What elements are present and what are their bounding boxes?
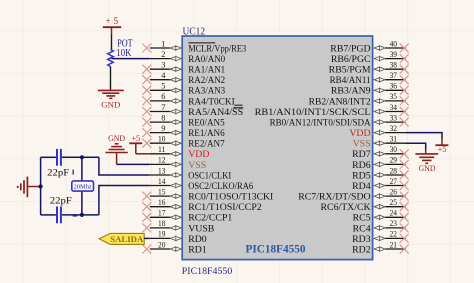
pin 8 stub (RE0/AN5) <box>142 113 181 126</box>
svg-text:RD1: RD1 <box>188 244 207 255</box>
svg-text:RB6/PGC: RB6/PGC <box>331 54 371 65</box>
power +5 (pin 32 VDD) <box>435 138 448 154</box>
svg-text:16: 16 <box>158 198 165 207</box>
pin 39 stub (RB6/PGC) <box>374 50 409 63</box>
svg-text:VSS: VSS <box>353 139 371 150</box>
svg-text:RB7/PGD: RB7/PGD <box>330 43 370 54</box>
svg-text:22: 22 <box>390 230 397 239</box>
svg-text:26: 26 <box>390 187 397 196</box>
pin 18 name label VUSB <box>188 223 215 234</box>
pin 29 name label RD6 <box>352 160 371 171</box>
svg-text:36: 36 <box>390 82 397 91</box>
wire GND to VSS pin 12 <box>117 163 150 165</box>
svg-text:RB4/AN11: RB4/AN11 <box>330 75 371 86</box>
svg-text:20: 20 <box>158 240 165 249</box>
pin 38 stub (RB5/PGM) <box>374 61 409 74</box>
svg-text:RB1/AN10/INT1/SCK/SCL: RB1/AN10/INT1/SCK/SCL <box>255 107 371 118</box>
pin 16 stub (RC1/T1OSI/CCP2) <box>142 198 181 211</box>
svg-text:21: 21 <box>390 240 397 249</box>
wire OSC1 to pin 13 <box>99 157 150 175</box>
pin 30 stub (RD7) <box>374 145 409 158</box>
svg-text:22pF: 22pF <box>50 197 72 207</box>
svg-text:25: 25 <box>390 198 397 207</box>
pin 33 stub (RB0/AN12/INT0/SDI/SDA) <box>374 113 409 126</box>
svg-text:7: 7 <box>161 103 165 112</box>
svg-text:RD6: RD6 <box>352 160 371 171</box>
pin 4 stub (RA2/AN2) <box>142 71 181 84</box>
pin 24 name label RC5 <box>353 213 371 224</box>
pin 25 name label RC6/TX/CK <box>321 202 371 213</box>
pin 11 stub (VDD) <box>150 145 182 157</box>
pin 6 name label RA4/T0CKI <box>188 96 242 107</box>
pin 22 stub (RD3) <box>374 230 409 243</box>
label 10K <box>116 48 132 59</box>
pin 38 name label RB5/PGM <box>329 65 371 76</box>
pin 15 stub (RC0/T1OSO/T13CKI) <box>142 187 181 200</box>
svg-text:RA1/AN1: RA1/AN1 <box>188 65 225 76</box>
pin 1 stub (MCLR/Vpp/RE3) <box>142 39 181 52</box>
wire OSC2 to pin 14 <box>99 186 150 215</box>
svg-text:3: 3 <box>161 61 165 70</box>
pin 28 name label RD5 <box>352 170 371 181</box>
pin 28 stub (RD5) <box>374 166 409 179</box>
svg-text:31: 31 <box>390 135 397 144</box>
svg-text:RA5/AN4/SS: RA5/AN4/SS <box>188 107 243 118</box>
pin 10 name label RE2/AN7 <box>188 139 225 150</box>
svg-text:13: 13 <box>158 166 165 175</box>
svg-text:30: 30 <box>390 145 397 154</box>
ground (pin 31 VSS) <box>415 150 438 173</box>
pin 23 stub (RC4) <box>374 219 409 232</box>
pin 39 name label RB6/PGC <box>331 54 371 65</box>
svg-text:1: 1 <box>161 39 165 48</box>
pin 36 name label RB3/AN9 <box>331 86 371 97</box>
pin 29 stub (RD6) <box>374 156 409 169</box>
svg-text:6: 6 <box>161 92 165 101</box>
svg-text:39: 39 <box>390 50 397 59</box>
pin 13 name label OSC1/CLKI <box>188 170 231 181</box>
pin 34 stub (RB1/AN10/INT1/SCK/SCL) <box>374 103 409 116</box>
svg-text:RC2/CCP1: RC2/CCP1 <box>188 213 232 224</box>
wire SALIDA to RD0 pin 19 <box>144 237 150 239</box>
pin 13 stub (OSC1/CLKI) <box>150 166 182 178</box>
pin 16 name label RC1/T1OSI/CCP2 <box>188 202 262 213</box>
svg-text:RD4: RD4 <box>352 181 371 192</box>
pin 40 name label RB7/PGD <box>330 43 370 54</box>
pin 3 stub (RA1/AN1) <box>142 61 181 74</box>
svg-text:VDD: VDD <box>188 149 209 160</box>
pin 34 name label RB1/AN10/INT1/SCK/SCL <box>255 107 371 118</box>
svg-text:VDD: VDD <box>349 128 370 139</box>
pin 23 name label RC4 <box>353 223 371 234</box>
pin 31 stub (VSS) <box>374 135 406 147</box>
svg-text:32: 32 <box>390 124 397 133</box>
pin 9 stub (RE1/AN6) <box>142 124 181 137</box>
svg-text:RB3/AN9: RB3/AN9 <box>331 86 371 97</box>
svg-text:23: 23 <box>390 219 397 228</box>
pin 26 name label RC7/RX/DT/SDO <box>298 192 370 203</box>
svg-text:RD3: RD3 <box>352 234 371 245</box>
pin 31 name label VSS <box>353 139 371 150</box>
junction node (bottom cap / crystal) <box>80 213 84 217</box>
svg-text:RA4/T0CKI: RA4/T0CKI <box>188 96 235 107</box>
junction node (top cap / crystal) <box>80 155 84 159</box>
label C2 ref mark <box>72 170 74 175</box>
svg-text:RE2/AN7: RE2/AN7 <box>188 139 225 150</box>
pin 27 stub (RD4) <box>374 177 409 190</box>
svg-text:18: 18 <box>158 219 165 228</box>
pin 25 stub (RC6/TX/CK) <box>374 198 409 211</box>
svg-text:11: 11 <box>158 145 165 154</box>
svg-text:OSC1/CLKI: OSC1/CLKI <box>188 170 231 181</box>
ground (crystal, rotated left) <box>18 177 28 198</box>
pin 35 name label RB2/AN8/INT2 <box>309 96 371 107</box>
wire pot wiper to RA0 (pin 2) <box>112 58 150 60</box>
capacitor C2 22pF (top) <box>41 149 99 166</box>
svg-text:22pF: 22pF <box>47 168 69 178</box>
pin 15 name label RC0/T1OSO/T13CKI <box>188 192 273 203</box>
wire +5 to VDD pin 11 <box>136 153 150 155</box>
pin 2 stub (RA0/AN0) <box>150 50 182 62</box>
svg-text:40: 40 <box>390 39 397 48</box>
pin 9 name label RE1/AN6 <box>188 128 225 139</box>
pin 3 name label RA1/AN1 <box>188 65 225 76</box>
svg-text:+5: +5 <box>131 134 140 143</box>
svg-text:RC5: RC5 <box>353 213 371 224</box>
pin 12 stub (VSS) <box>150 156 182 168</box>
capacitor C3 22pF (bottom) <box>41 207 99 224</box>
pin 32 stub (VDD) <box>374 124 406 136</box>
pin 19 stub (RD0) <box>150 230 182 242</box>
pin 37 name label RB4/AN11 <box>330 75 371 86</box>
pin 37 stub (RB4/AN11) <box>374 71 409 84</box>
svg-text:RD5: RD5 <box>352 170 371 181</box>
pin 24 stub (RC5) <box>374 209 409 222</box>
pin 19 name label RD0 <box>188 234 207 245</box>
svg-text:9: 9 <box>161 124 165 133</box>
pin 17 stub (RC2/CCP1) <box>142 209 181 222</box>
IC UC12 PIC18F4550 body <box>182 36 372 260</box>
svg-text:RD7: RD7 <box>352 149 371 160</box>
pin 21 name label RD2 <box>352 244 371 255</box>
pin 40 stub (RB7/PGD) <box>374 39 409 52</box>
svg-text:RC1/T1OSI/CCP2: RC1/T1OSI/CCP2 <box>188 202 262 213</box>
svg-text:OSC2/CLKO/RA6: OSC2/CLKO/RA6 <box>188 181 253 192</box>
label 22pF (bottom) <box>50 197 72 207</box>
svg-text:38: 38 <box>390 61 397 70</box>
svg-text:RB2/AN8/INT2: RB2/AN8/INT2 <box>309 96 371 107</box>
pin 18 stub (VUSB) <box>142 219 181 232</box>
pin 2 name label RA0/AN0 <box>188 54 225 65</box>
pin 26 stub (RC7/RX/DT/SDO) <box>374 187 409 200</box>
label C3 ref mark <box>73 215 78 217</box>
svg-text:37: 37 <box>390 71 397 80</box>
ground (pot bottom) <box>98 90 124 109</box>
svg-text:RA3/AN3: RA3/AN3 <box>188 86 225 97</box>
svg-text:RE0/AN5: RE0/AN5 <box>188 118 225 129</box>
pin 30 name label RD7 <box>352 149 371 160</box>
svg-text:RC6/TX/CK: RC6/TX/CK <box>321 202 371 213</box>
svg-text:SALIDA: SALIDA <box>110 235 143 244</box>
pin 14 stub (OSC2/CLKO/RA6) <box>150 177 182 189</box>
pin 5 stub (RA3/AN3) <box>142 82 181 95</box>
pin 4 name label RA2/AN2 <box>188 75 225 86</box>
wire crystal vertical <box>81 157 83 215</box>
svg-text:PIC18F4550: PIC18F4550 <box>246 243 306 255</box>
pin 22 name label RD3 <box>352 234 371 245</box>
svg-text:RC0/T1OSO/T13CKI: RC0/T1OSO/T13CKI <box>188 192 273 203</box>
svg-text:RE1/AN6: RE1/AN6 <box>188 128 225 139</box>
svg-text:RB0/AN12/INT0/SDI/SDA: RB0/AN12/INT0/SDI/SDA <box>270 118 371 129</box>
svg-text:VUSB: VUSB <box>188 223 215 234</box>
svg-text:29: 29 <box>390 156 397 165</box>
svg-text:RC4: RC4 <box>353 223 371 234</box>
label PIC18F4550 (below chip) <box>182 266 233 277</box>
svg-text:15: 15 <box>158 187 165 196</box>
svg-text:UC12: UC12 <box>183 27 206 38</box>
crystal X1 20Mhz <box>72 181 94 191</box>
pin 7 stub (RA5/AN4/SS) <box>142 103 181 116</box>
label UC12 <box>183 27 206 38</box>
net flag SALIDA <box>99 233 144 244</box>
pin 27 name label RD4 <box>352 181 371 192</box>
wire VSS pin 31 to GND <box>406 143 426 150</box>
svg-text:VSS: VSS <box>188 160 206 171</box>
svg-text:RA2/AN2: RA2/AN2 <box>188 75 225 86</box>
pin 8 name label RE0/AN5 <box>188 118 225 129</box>
svg-text:RB5/PGM: RB5/PGM <box>329 65 371 76</box>
pin 7 name label RA5/AN4/SS <box>188 107 243 118</box>
power +5 (pin 11 VDD) <box>129 134 142 154</box>
pin 33 name label RB0/AN12/INT0/SDI/SDA <box>270 118 371 129</box>
svg-text:PIC18F4550: PIC18F4550 <box>182 266 233 277</box>
svg-text:5: 5 <box>161 82 165 91</box>
pin 35 stub (RB2/AN8/INT2) <box>374 92 409 105</box>
svg-text:RA0/AN0: RA0/AN0 <box>188 54 225 65</box>
pin 11 name label VDD <box>188 149 209 160</box>
wire VDD pin 32 to +5 <box>406 133 442 139</box>
svg-text:28: 28 <box>390 166 397 175</box>
svg-text:GND: GND <box>419 164 436 173</box>
wire ground to cap rail <box>28 186 40 188</box>
wire +5 to pot <box>111 35 113 50</box>
svg-text:MCLR/Vpp/RE3: MCLR/Vpp/RE3 <box>188 43 246 54</box>
wire pot to ground <box>110 67 112 90</box>
svg-text:RD0: RD0 <box>188 234 207 245</box>
svg-text:35: 35 <box>390 92 397 101</box>
svg-text:34: 34 <box>390 103 398 112</box>
pin 6 stub (RA4/T0CKI) <box>142 92 181 105</box>
label 22pF (top) <box>47 168 69 178</box>
junction node (ground/rail) <box>39 184 43 188</box>
svg-text:27: 27 <box>390 177 397 186</box>
svg-text:RC7/RX/DT/SDO: RC7/RX/DT/SDO <box>298 192 370 203</box>
pin 32 name label VDD <box>349 128 370 139</box>
pin 14 name label OSC2/CLKO/RA6 <box>188 181 253 192</box>
ground (pin 12 VSS, inverted) <box>105 134 127 164</box>
power +5 (pot top) <box>103 16 121 34</box>
svg-text:10K: 10K <box>116 48 132 59</box>
svg-text:14: 14 <box>158 177 166 186</box>
pin 20 name label RD1 <box>188 244 207 255</box>
svg-text:12: 12 <box>158 156 165 165</box>
svg-text:GND: GND <box>101 100 120 109</box>
svg-text:GND: GND <box>108 134 125 143</box>
svg-text:24: 24 <box>390 209 398 218</box>
svg-text:17: 17 <box>158 209 165 218</box>
svg-text:10: 10 <box>158 135 165 144</box>
svg-text:19: 19 <box>158 230 165 239</box>
pin 1 name label MCLR/Vpp/RE3 <box>188 43 246 55</box>
pin 21 stub (RD2) <box>374 240 409 253</box>
pin 12 name label VSS <box>188 160 206 171</box>
svg-text:RD2: RD2 <box>352 244 371 255</box>
pin 20 stub (RD1) <box>142 240 181 253</box>
label PIC18F4550 (inside chip) <box>246 243 306 255</box>
pin 36 stub (RB3/AN9) <box>374 82 409 95</box>
svg-text:2: 2 <box>161 50 165 59</box>
resistor POT (potentiometer) <box>108 50 114 67</box>
svg-text:+5: +5 <box>438 145 447 154</box>
svg-text:20Mhz: 20Mhz <box>74 183 92 190</box>
label POT <box>117 38 132 49</box>
wire left rail <box>40 157 42 215</box>
svg-text:33: 33 <box>390 113 397 122</box>
pin 5 name label RA3/AN3 <box>188 86 225 97</box>
pin 17 name label RC2/CCP1 <box>188 213 232 224</box>
pin 10 stub (RE2/AN7) <box>142 135 181 148</box>
svg-text:8: 8 <box>161 113 165 122</box>
